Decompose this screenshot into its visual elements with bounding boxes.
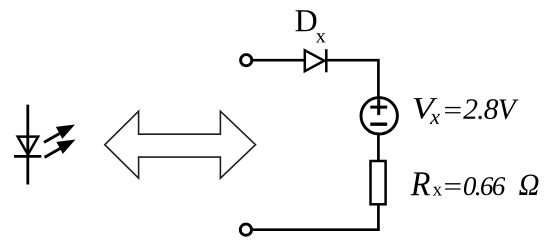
wire (voltage source to resistor) <box>377 134 380 162</box>
wire (resistor to bottom-right corner) <box>377 204 380 231</box>
plus sign <box>370 106 387 109</box>
LED emission arrow (lower) <box>45 140 76 158</box>
LED symbol <box>14 105 76 185</box>
LED triangle (anode) <box>18 137 38 155</box>
LED cathode bar <box>14 155 41 158</box>
label Rx=0.66 Ohm <box>411 172 539 195</box>
wire (diode cathode to top-right corner) <box>328 59 379 62</box>
LED emission arrow (upper) <box>44 125 75 143</box>
diode Dx triangle <box>305 50 324 71</box>
node: bottom terminal <box>240 224 251 235</box>
label Vx=2.8V <box>414 98 519 124</box>
diode Dx cathode bar <box>325 49 328 72</box>
wire (LED vertical lead) <box>26 105 29 185</box>
wire (corner down to voltage source) <box>377 59 380 97</box>
wire (bottom corner to bottom terminal) <box>253 228 380 231</box>
double-headed equivalence arrow <box>105 111 256 178</box>
wire (top terminal to diode anode) <box>253 59 305 62</box>
label Dx <box>296 10 326 42</box>
node: top terminal <box>241 55 252 66</box>
voltage source Vx <box>361 98 397 134</box>
minus sign <box>370 122 387 125</box>
resistor Rx body <box>371 161 386 204</box>
